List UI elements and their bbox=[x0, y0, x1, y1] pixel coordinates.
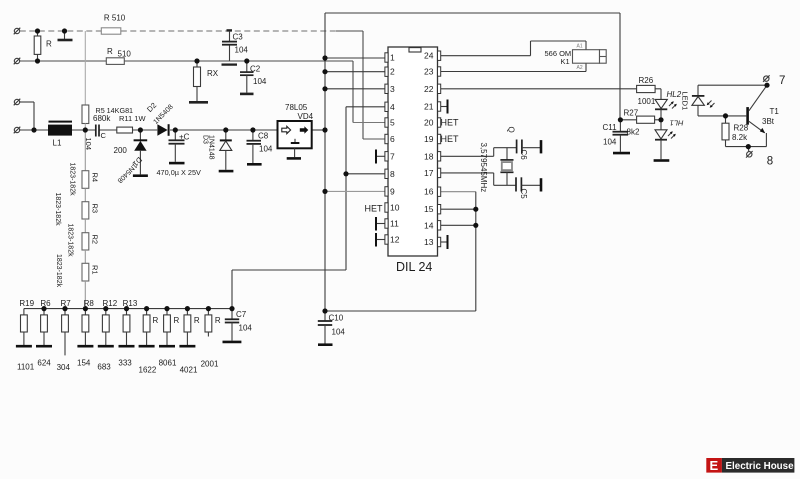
svg-text:D3: D3 bbox=[202, 135, 209, 144]
svg-text:104: 104 bbox=[259, 145, 273, 154]
svg-text:C10: C10 bbox=[329, 314, 344, 323]
svg-text:R2: R2 bbox=[90, 235, 99, 245]
svg-text:22: 22 bbox=[424, 84, 434, 94]
svg-text:2001: 2001 bbox=[201, 360, 219, 369]
svg-text:3Bt: 3Bt bbox=[762, 117, 775, 126]
svg-text:4021: 4021 bbox=[180, 366, 198, 375]
svg-text:R13: R13 bbox=[123, 299, 138, 308]
svg-text:1823-182k: 1823-182k bbox=[69, 163, 76, 197]
svg-text:12: 12 bbox=[390, 235, 400, 245]
svg-text:HL2: HL2 bbox=[667, 90, 682, 99]
svg-text:9: 9 bbox=[390, 186, 395, 196]
svg-text:R: R bbox=[174, 316, 180, 325]
svg-text:624: 624 bbox=[37, 359, 51, 368]
svg-text:RX: RX bbox=[207, 69, 219, 78]
svg-text:8.2k: 8.2k bbox=[732, 133, 748, 142]
svg-text:8: 8 bbox=[390, 169, 395, 179]
svg-text:8061: 8061 bbox=[159, 359, 177, 368]
svg-text:C7: C7 bbox=[236, 310, 247, 319]
svg-text:R28: R28 bbox=[734, 124, 749, 133]
svg-text:20: 20 bbox=[424, 118, 434, 128]
svg-text:24: 24 bbox=[424, 51, 434, 61]
svg-text:5: 5 bbox=[390, 118, 395, 128]
svg-text:K1: K1 bbox=[561, 57, 570, 66]
svg-text:E: E bbox=[710, 458, 719, 473]
svg-text:A2: A2 bbox=[577, 65, 583, 71]
svg-text:683: 683 bbox=[97, 363, 111, 372]
svg-text:19: 19 bbox=[424, 134, 434, 144]
svg-text:R: R bbox=[153, 316, 159, 325]
svg-text:R6: R6 bbox=[40, 299, 51, 308]
svg-text:R8: R8 bbox=[84, 299, 95, 308]
svg-text:7: 7 bbox=[390, 151, 395, 161]
svg-text:C3: C3 bbox=[233, 33, 244, 42]
svg-text:VD4: VD4 bbox=[298, 112, 314, 121]
svg-text:1: 1 bbox=[390, 53, 395, 63]
svg-text:1622: 1622 bbox=[139, 366, 157, 375]
svg-text:11: 11 bbox=[390, 219, 399, 229]
svg-text:HL1: HL1 bbox=[670, 119, 684, 128]
svg-text:HET: HET bbox=[365, 204, 384, 214]
svg-text:18: 18 bbox=[424, 151, 434, 161]
svg-text:510: 510 bbox=[118, 50, 132, 59]
svg-text:8k2: 8k2 bbox=[627, 128, 640, 137]
svg-text:HET: HET bbox=[441, 118, 460, 128]
svg-text:2: 2 bbox=[390, 67, 395, 77]
svg-text:R27: R27 bbox=[624, 109, 639, 118]
svg-text:3,579545MHz: 3,579545MHz bbox=[479, 143, 488, 193]
svg-text:7: 7 bbox=[779, 75, 785, 87]
svg-text:23: 23 bbox=[424, 67, 434, 77]
svg-text:R: R bbox=[215, 316, 221, 325]
svg-text:4: 4 bbox=[390, 102, 395, 112]
svg-text:104: 104 bbox=[253, 77, 267, 86]
svg-text:1823-182k: 1823-182k bbox=[55, 254, 62, 288]
svg-text:R4: R4 bbox=[90, 173, 99, 183]
svg-text:R: R bbox=[194, 316, 200, 325]
svg-text:78L05: 78L05 bbox=[285, 103, 308, 112]
svg-text:304: 304 bbox=[57, 363, 71, 372]
svg-text:R: R bbox=[107, 47, 113, 56]
svg-text:R 510: R 510 bbox=[104, 14, 126, 23]
svg-text:R7: R7 bbox=[61, 299, 72, 308]
svg-text:HET: HET bbox=[441, 134, 460, 144]
svg-text:680k: 680k bbox=[93, 114, 111, 123]
svg-text:104: 104 bbox=[332, 328, 346, 337]
svg-text:1N4148: 1N4148 bbox=[208, 135, 215, 160]
svg-text:154: 154 bbox=[77, 359, 91, 368]
svg-text:17: 17 bbox=[424, 168, 434, 178]
svg-text:8: 8 bbox=[767, 155, 773, 167]
svg-text:R19: R19 bbox=[19, 299, 34, 308]
svg-text:104: 104 bbox=[84, 138, 93, 151]
svg-text:R3: R3 bbox=[90, 204, 99, 214]
svg-text:C2: C2 bbox=[250, 65, 261, 74]
svg-text:C6: C6 bbox=[519, 150, 528, 161]
svg-text:T1: T1 bbox=[770, 107, 780, 116]
svg-text:R1: R1 bbox=[90, 265, 99, 275]
svg-text:333: 333 bbox=[118, 359, 132, 368]
svg-text:L1: L1 bbox=[53, 139, 62, 148]
svg-text:1001: 1001 bbox=[638, 97, 656, 106]
svg-text:13: 13 bbox=[424, 237, 434, 247]
svg-text:3: 3 bbox=[390, 84, 395, 94]
svg-text:15: 15 bbox=[424, 204, 434, 214]
svg-text:Q: Q bbox=[506, 127, 515, 133]
svg-text:R: R bbox=[46, 40, 52, 49]
svg-text:10: 10 bbox=[390, 203, 400, 213]
svg-text:R26: R26 bbox=[639, 76, 654, 85]
svg-text:14: 14 bbox=[424, 220, 434, 230]
svg-text:C8: C8 bbox=[258, 132, 269, 141]
svg-text:104: 104 bbox=[603, 138, 617, 147]
svg-text:1823-182k: 1823-182k bbox=[67, 224, 74, 258]
svg-text:104: 104 bbox=[239, 324, 253, 333]
svg-text:C: C bbox=[101, 131, 107, 140]
svg-text:1101: 1101 bbox=[17, 363, 35, 372]
svg-text:LED1: LED1 bbox=[681, 92, 690, 111]
svg-text:R11 1W: R11 1W bbox=[119, 114, 146, 123]
svg-text:470,0µ X 25V: 470,0µ X 25V bbox=[157, 168, 202, 177]
svg-text:DIL 24: DIL 24 bbox=[396, 260, 432, 274]
svg-text:6: 6 bbox=[390, 134, 395, 144]
svg-text:16: 16 bbox=[424, 187, 434, 197]
svg-text:Electric House: Electric House bbox=[726, 461, 795, 472]
svg-text:200: 200 bbox=[114, 146, 128, 155]
svg-text:104: 104 bbox=[235, 46, 249, 55]
svg-text:C11: C11 bbox=[603, 123, 618, 132]
svg-text:C5: C5 bbox=[519, 189, 528, 200]
svg-text:+C: +C bbox=[179, 133, 190, 142]
svg-text:21: 21 bbox=[424, 102, 434, 112]
svg-text:R12: R12 bbox=[103, 299, 118, 308]
svg-text:1823-182k: 1823-182k bbox=[54, 193, 61, 227]
svg-text:A1: A1 bbox=[577, 44, 583, 50]
